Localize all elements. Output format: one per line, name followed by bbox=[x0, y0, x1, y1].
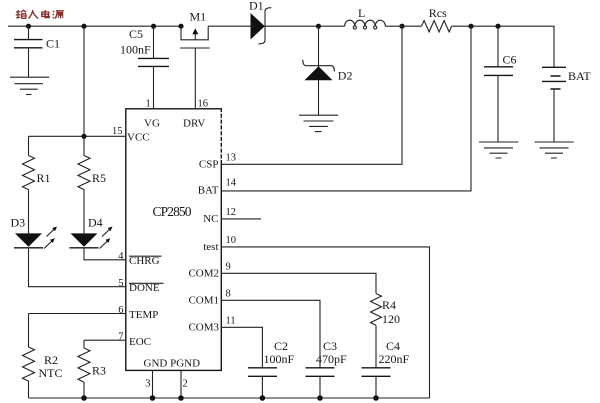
svg-text:VCC: VCC bbox=[127, 132, 150, 144]
pin 8 COM1 bbox=[188, 289, 230, 307]
junction dot: C4 to rail bbox=[373, 395, 379, 401]
svg-text:CP2850: CP2850 bbox=[153, 204, 192, 219]
junction dot: M1 source bbox=[178, 24, 183, 29]
pin 16 DRV bbox=[183, 98, 208, 129]
wire: D3 cathode to DONE pin 5 bbox=[29, 248, 126, 287]
svg-text:C5: C5 bbox=[129, 27, 143, 41]
svg-text:1: 1 bbox=[146, 98, 151, 109]
wire: M1 drain to D1 anode bbox=[208, 25, 250, 27]
svg-text:D4: D4 bbox=[88, 216, 103, 230]
wire: COM2 to R4 bbox=[221, 273, 376, 293]
junction dot: VCC / R5 node bbox=[81, 134, 86, 139]
pin 9 COM2 bbox=[188, 262, 230, 280]
IC U1 CP2850 bbox=[126, 109, 222, 371]
svg-text:R3: R3 bbox=[92, 364, 106, 378]
diode D1 (Schottky) bbox=[249, 0, 271, 44]
pin 6 TEMP + wire bbox=[29, 305, 159, 321]
svg-text:BAT: BAT bbox=[568, 69, 591, 83]
svg-text:15: 15 bbox=[112, 126, 123, 137]
svg-text:NTC: NTC bbox=[39, 366, 63, 380]
svg-text:L: L bbox=[358, 6, 365, 20]
resistor R5 bbox=[78, 136, 106, 233]
junction dot: CSP sense node bbox=[399, 24, 404, 29]
ground: D2 bbox=[299, 115, 338, 131]
junction dot: C3 to rail bbox=[317, 395, 323, 401]
svg-text:COM2: COM2 bbox=[188, 268, 219, 280]
svg-text:4: 4 bbox=[118, 251, 124, 262]
pin 7 EOC + wire bbox=[84, 332, 151, 348]
svg-text:C1: C1 bbox=[46, 37, 60, 51]
svg-text:M1: M1 bbox=[190, 10, 207, 24]
svg-text:100nF: 100nF bbox=[264, 352, 295, 366]
pin 12 NC + stub bbox=[203, 207, 261, 225]
label: input power 输入电源 bbox=[16, 10, 64, 19]
svg-text:TEMP: TEMP bbox=[129, 309, 158, 321]
wire: COM3 to C2 bbox=[221, 327, 262, 368]
svg-text:D3: D3 bbox=[11, 216, 26, 230]
pin 4 CHRG bbox=[118, 251, 161, 267]
ground: BAT bbox=[535, 142, 574, 158]
capacitor C3 470pF bbox=[306, 339, 348, 398]
svg-text:Rcs: Rcs bbox=[429, 6, 447, 20]
svg-text:R4: R4 bbox=[382, 298, 396, 312]
junction dot: PGND pin to rail bbox=[178, 395, 184, 401]
junction dot: C2 to rail bbox=[260, 395, 266, 401]
pin 11 COM3 bbox=[188, 316, 235, 334]
wire: M1 gate to DRV pin 16 bbox=[194, 48, 196, 109]
svg-text:R2: R2 bbox=[44, 353, 58, 367]
svg-text:D2: D2 bbox=[338, 69, 353, 83]
svg-text:test: test bbox=[203, 241, 218, 253]
svg-text:BAT: BAT bbox=[198, 185, 219, 197]
diode D2 (Schottky catch) bbox=[303, 26, 353, 115]
transistor M1 (PMOS switch) bbox=[180, 10, 210, 49]
pin 1 VG bbox=[144, 98, 160, 129]
svg-text:9: 9 bbox=[226, 262, 231, 273]
inductor L bbox=[345, 6, 386, 29]
svg-text:14: 14 bbox=[226, 178, 237, 189]
junction dot: BAT feedback node bbox=[468, 24, 473, 29]
svg-text:VG: VG bbox=[144, 118, 160, 130]
svg-text:100nF: 100nF bbox=[120, 43, 151, 57]
pin 3 GND + wire bbox=[145, 370, 152, 398]
wire: COM1 to C3 bbox=[221, 300, 320, 368]
svg-text:6: 6 bbox=[118, 305, 123, 316]
LED D4 bbox=[70, 216, 113, 249]
svg-text:CSP: CSP bbox=[199, 159, 219, 171]
svg-text:16: 16 bbox=[198, 98, 209, 109]
ground: C1 bbox=[10, 77, 49, 94]
pin 10 test bbox=[203, 235, 236, 253]
svg-text:COM3: COM3 bbox=[188, 322, 219, 334]
svg-text:12: 12 bbox=[226, 207, 237, 218]
pin 2 PGND + wire bbox=[181, 370, 188, 398]
wire: D1 cathode to inductor bbox=[265, 25, 345, 27]
svg-text:470pF: 470pF bbox=[316, 352, 347, 366]
junction dot: GND pin to rail bbox=[150, 395, 156, 401]
wire: bottom ground rail bbox=[29, 397, 430, 399]
svg-text:D1: D1 bbox=[249, 0, 264, 13]
wire: VCC drop from rail bbox=[83, 26, 85, 136]
pin 15 VCC bbox=[112, 126, 150, 144]
wire: input top rail bbox=[8, 25, 181, 27]
svg-text:C4: C4 bbox=[386, 339, 400, 353]
svg-text:3: 3 bbox=[145, 378, 150, 389]
pin 5 DONE bbox=[118, 278, 163, 294]
wire: rail from Rcs to battery bbox=[452, 26, 554, 67]
capacitor C6 bbox=[484, 26, 517, 142]
resistor R2 NTC bbox=[23, 314, 63, 399]
wire: test pin loop to ground rail bbox=[221, 247, 429, 398]
svg-text:EOC: EOC bbox=[129, 336, 151, 348]
junction dot: C6 tap bbox=[495, 24, 500, 29]
resistor R4 120 bbox=[371, 294, 401, 368]
svg-text:8: 8 bbox=[226, 289, 231, 300]
resistor R1 bbox=[23, 136, 51, 233]
battery BAT bbox=[542, 67, 591, 142]
svg-text:7: 7 bbox=[118, 332, 123, 343]
svg-text:C2: C2 bbox=[274, 339, 288, 353]
pin 14 BAT bbox=[198, 178, 237, 197]
svg-text:NC: NC bbox=[203, 213, 218, 225]
wire: BAT feedback to pin 14 bbox=[221, 26, 471, 191]
svg-text:C3: C3 bbox=[323, 339, 337, 353]
svg-text:5: 5 bbox=[118, 278, 123, 289]
svg-text:220nF: 220nF bbox=[379, 352, 410, 366]
svg-text:C6: C6 bbox=[503, 53, 517, 67]
svg-text:13: 13 bbox=[226, 153, 237, 164]
ground: C6 bbox=[479, 142, 518, 158]
svg-text:DRV: DRV bbox=[183, 118, 205, 130]
junction dot: C5 tap bbox=[151, 24, 156, 29]
junction dot: R3 to rail bbox=[81, 395, 87, 401]
pin 13 CSP bbox=[199, 153, 236, 171]
wire: VCC line (pin 15) bbox=[29, 135, 126, 137]
svg-text:120: 120 bbox=[382, 312, 400, 326]
junction dot: C1 tap bbox=[26, 24, 31, 29]
svg-text:R1: R1 bbox=[37, 171, 51, 185]
junction dot: VCC branch bbox=[81, 24, 86, 29]
wire: D4 cathode to CHRG pin 4 bbox=[84, 248, 126, 260]
svg-text:11: 11 bbox=[226, 316, 236, 327]
svg-text:COM1: COM1 bbox=[188, 295, 219, 307]
wire: CSP sense line to pin 13 bbox=[221, 26, 402, 164]
resistor R3 bbox=[78, 340, 106, 398]
LED D3 bbox=[11, 216, 58, 249]
wire: inductor to Rcs bbox=[385, 25, 421, 27]
svg-text:2: 2 bbox=[183, 378, 188, 389]
junction dot: switch node (D2 tap) bbox=[316, 24, 321, 29]
capacitor C1 bbox=[14, 26, 60, 77]
svg-text:R5: R5 bbox=[92, 171, 106, 185]
capacitor C2 100nF bbox=[248, 339, 295, 398]
svg-text:GND PGND: GND PGND bbox=[144, 358, 201, 370]
resistor Rcs bbox=[422, 6, 452, 32]
capacitor C4 220nF bbox=[362, 339, 410, 398]
svg-text:10: 10 bbox=[226, 235, 237, 246]
capacitor C5 100nF bbox=[120, 26, 169, 109]
